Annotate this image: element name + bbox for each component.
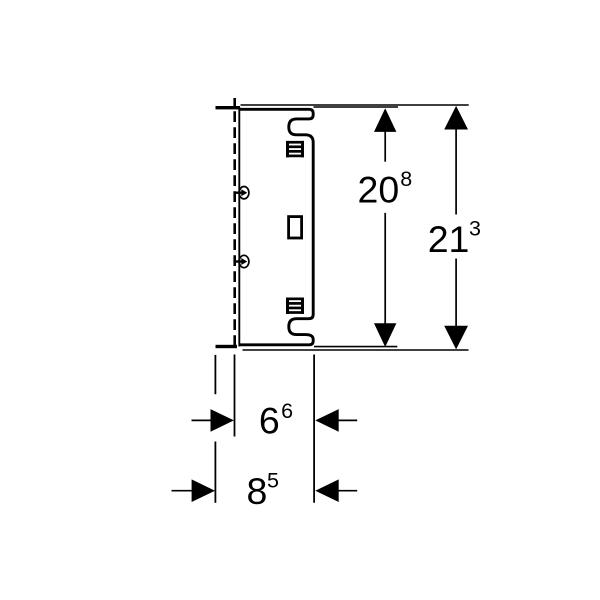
svg-text:3: 3 <box>469 217 481 241</box>
svg-text:8: 8 <box>247 470 268 512</box>
svg-text:5: 5 <box>267 468 279 492</box>
svg-text:8: 8 <box>400 167 412 191</box>
svg-text:21: 21 <box>428 218 470 260</box>
svg-text:20: 20 <box>358 168 400 210</box>
svg-text:6: 6 <box>259 400 280 442</box>
svg-text:6: 6 <box>281 399 293 423</box>
